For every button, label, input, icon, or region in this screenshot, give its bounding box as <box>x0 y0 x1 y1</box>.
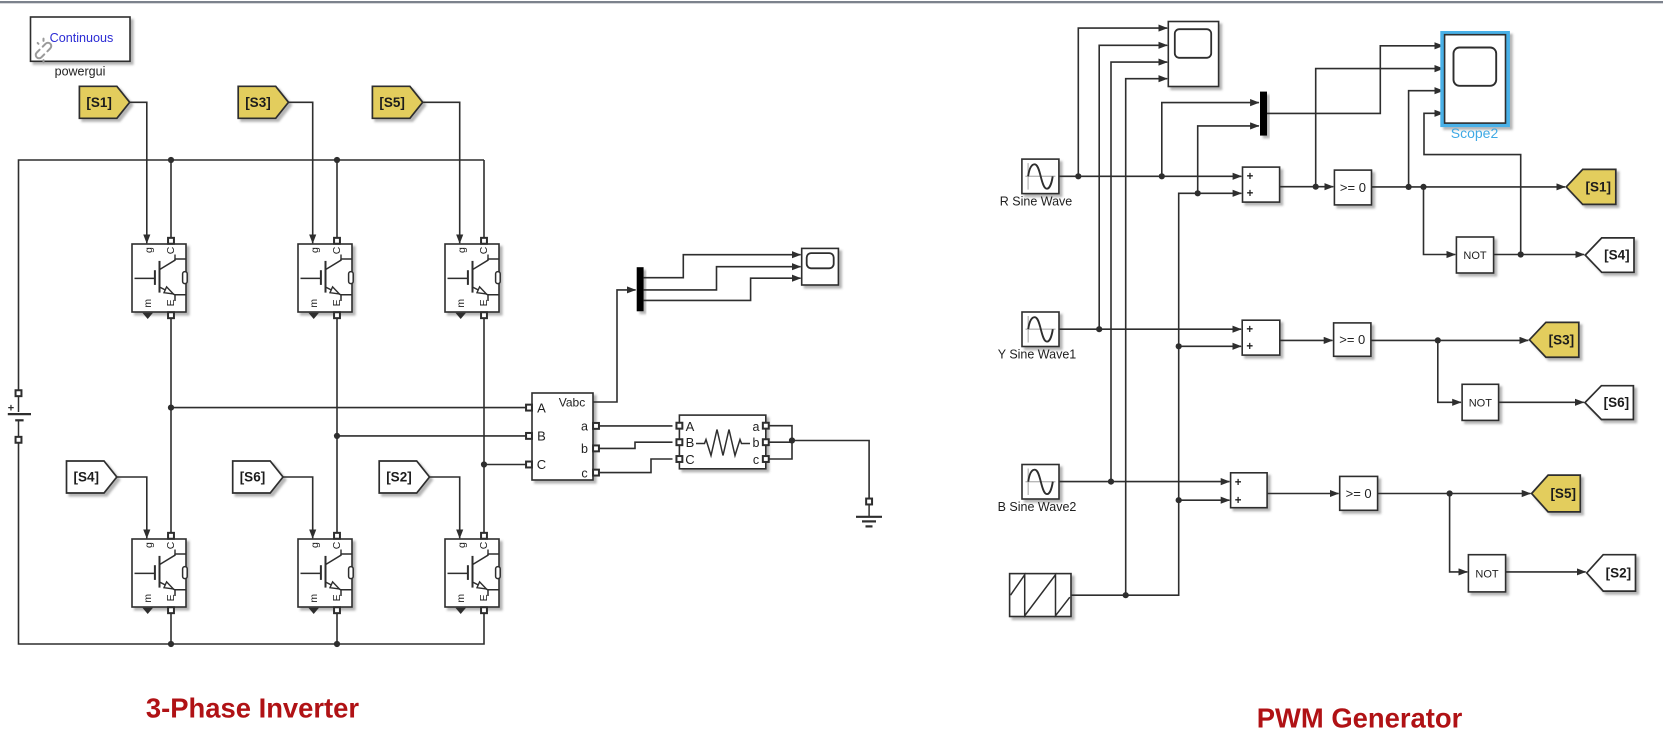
wire triangle carrier output <box>1071 193 1241 595</box>
svg-text:C: C <box>165 246 177 254</box>
wire IGBT2 collector drop <box>336 160 338 238</box>
wire Y sine tap up to pwm scope in2 <box>1099 45 1167 329</box>
From tag [S3] <box>238 86 288 118</box>
svg-text:>= 0: >= 0 <box>1340 180 1366 195</box>
svg-text:+: + <box>8 403 14 415</box>
svg-text:c: c <box>753 453 759 467</box>
mux <box>1260 92 1267 136</box>
sine wave source (B Sine Wave2) <box>1022 465 1059 500</box>
wire [S5] to gate of IGBT3 <box>423 102 460 243</box>
relational operator block (&gt;= 0, Y phase) <box>1334 323 1371 356</box>
NOT logical operator block (S4) <box>1456 237 1493 273</box>
Goto tag [S3] <box>1529 322 1578 357</box>
svg-text:C: C <box>478 541 490 549</box>
svg-text:NOT: NOT <box>1463 250 1487 262</box>
demux <box>637 267 644 311</box>
DC voltage source V1 <box>8 390 31 443</box>
svg-text:[S2]: [S2] <box>1606 565 1632 580</box>
wire demux out1 to scope in1 <box>644 255 801 278</box>
svg-text:m: m <box>455 594 467 603</box>
wire phase A to measurement port A <box>171 407 526 409</box>
svg-text:+: + <box>1235 495 1242 507</box>
svg-text:[S6]: [S6] <box>240 470 266 485</box>
svg-text:[S1]: [S1] <box>86 95 112 110</box>
sine wave source (R Sine Wave) <box>1022 159 1059 194</box>
sum block (Y phase) <box>1242 320 1280 355</box>
svg-text:g: g <box>456 542 468 548</box>
svg-text:Scope2: Scope2 <box>1451 125 1499 141</box>
wire B sine tap up to pwm scope in3 <box>1111 62 1167 482</box>
wire phase C vertical (IGBT3 E to IGBT6 C) <box>483 318 485 533</box>
wire IGBT4 emitter to DC- bus <box>170 613 172 644</box>
svg-text:C: C <box>685 452 694 467</box>
IGBT/Diode block Q5 (top, phase C) <box>445 238 500 319</box>
IGBT/Diode block Q2 (bottom, phase C) <box>445 533 500 614</box>
Goto tag [S4] <box>1585 238 1634 272</box>
svg-text:[S6]: [S6] <box>1604 395 1630 410</box>
svg-text:g: g <box>309 247 321 253</box>
wire DC+ bus drop to IGBT3 collector <box>483 160 485 238</box>
node relational1 tap to Scope2 <box>1406 184 1412 190</box>
wire measurement b to load B <box>600 442 673 448</box>
wire [S4] to gate of IGBT4 <box>117 477 147 538</box>
svg-text:>= 0: >= 0 <box>1346 486 1372 501</box>
svg-text:m: m <box>142 299 154 308</box>
three-phase series RLC load block <box>676 415 768 469</box>
Goto tag [S5] <box>1532 475 1581 512</box>
repeating sequence (triangle carrier) block <box>1010 574 1071 617</box>
wire phase A vertical (IGBT1 E to IGBT4 C) <box>170 318 172 533</box>
svg-text:NOT: NOT <box>1469 397 1493 409</box>
svg-text:R Sine Wave: R Sine Wave <box>1000 194 1073 208</box>
wire relational2 tap to NOT2 input <box>1438 340 1461 402</box>
node phase C junction <box>481 461 487 467</box>
svg-text:C: C <box>537 457 546 472</box>
node Y sine tap <box>1096 326 1102 332</box>
node phase B junction <box>334 433 340 439</box>
svg-text:[S3]: [S3] <box>1549 332 1575 347</box>
IGBT/Diode block Q6 (bottom, phase B) <box>298 533 353 614</box>
svg-text:g: g <box>143 247 155 253</box>
wire sum2 to relational2 <box>1280 339 1333 341</box>
wire measurement a to load A <box>600 425 673 427</box>
svg-text:Y Sine Wave1: Y Sine Wave1 <box>998 347 1077 361</box>
From tag [S5] <box>372 86 422 118</box>
relational operator block (&gt;= 0, R phase) <box>1334 170 1371 205</box>
wire NOT3 to Goto [S2] <box>1506 571 1586 573</box>
junction on DC+ bus at IGBT2 collector <box>334 157 340 163</box>
svg-text:[S1]: [S1] <box>1585 179 1611 194</box>
svg-text:[S4]: [S4] <box>1604 248 1630 263</box>
node phase A junction <box>168 405 174 411</box>
wire relational1 tap to NOT1 input <box>1424 187 1456 255</box>
three-phase V-I measurement block <box>526 393 599 480</box>
svg-text:m: m <box>455 299 467 308</box>
wire R sine tap to mux in1 <box>1162 103 1259 177</box>
wire relational2 to Goto [S3] <box>1371 339 1528 341</box>
node R sine tap to scope <box>1075 173 1081 179</box>
node relational2 tap to NOT2 <box>1435 337 1441 343</box>
wire measurement c to load C <box>600 459 673 473</box>
svg-text:+: + <box>1235 477 1242 489</box>
node B sine tap <box>1108 479 1114 485</box>
From tag [S1] <box>79 86 129 118</box>
svg-text:+: + <box>1246 341 1253 353</box>
junction on DC- bus at IGBT5 emitter <box>334 641 340 647</box>
wire sum1 to relational1 <box>1280 186 1334 188</box>
From tag [S4] <box>67 461 117 493</box>
wire DC- bus (bottom) <box>19 443 485 644</box>
svg-text:+: + <box>1246 324 1253 336</box>
wire relational3 to Goto [S5] <box>1378 493 1531 495</box>
node relational1 tap to NOT1 <box>1420 184 1426 190</box>
wire relational3 tap to NOT3 input <box>1450 494 1468 572</box>
svg-text:>= 0: >= 0 <box>1339 332 1365 347</box>
wire load b to neutral node <box>769 441 792 443</box>
Goto tag [S2] <box>1587 555 1636 591</box>
wire Vabc to demux <box>593 290 636 402</box>
wire relational1 to Goto [S1] <box>1372 186 1566 188</box>
svg-text:NOT: NOT <box>1475 568 1499 580</box>
scope block (pwm signals) <box>1168 22 1218 87</box>
wire [S2] to gate of IGBT6 <box>430 477 460 538</box>
wire load c to neutral node <box>769 440 792 459</box>
svg-text:A: A <box>686 419 695 434</box>
wire [S1] to gate of IGBT1 <box>130 102 147 243</box>
node triangle bus to sum2 <box>1176 343 1182 349</box>
wire demux out3 to scope in3 <box>644 278 801 300</box>
wire B Sine Wave2 to sum3 in1 <box>1059 481 1230 483</box>
wire sum1 tap up to Scope2 in2 <box>1316 69 1444 187</box>
svg-text:[S5]: [S5] <box>379 95 405 110</box>
svg-text:C: C <box>331 246 343 254</box>
wire NOT1 to Goto [S4] <box>1494 254 1585 256</box>
svg-text:[S4]: [S4] <box>73 470 99 485</box>
wire R sine tap up to pwm scope in1 <box>1078 28 1167 176</box>
wire [S3] to gate of IGBT2 <box>289 102 313 243</box>
svg-text:Continuous: Continuous <box>50 31 114 45</box>
relational operator block (&gt;= 0, B phase) <box>1340 476 1378 510</box>
wire IGBT5 emitter to DC- bus <box>336 613 338 644</box>
NOT logical operator block (S6) <box>1462 384 1499 420</box>
wire triangle tap up to pwm scope in4 <box>1126 79 1168 596</box>
svg-text:a: a <box>581 420 588 434</box>
node R sine tap to mux <box>1159 173 1165 179</box>
wire relational1 tap up to Scope2 in3 <box>1409 91 1444 187</box>
svg-text:[S5]: [S5] <box>1550 486 1576 501</box>
svg-text:b: b <box>753 436 760 450</box>
svg-text:+: + <box>1247 188 1254 200</box>
wire load a to neutral node <box>769 426 792 440</box>
wire DC+ bus (top) <box>19 160 485 390</box>
svg-text:g: g <box>143 542 155 548</box>
ground <box>856 499 882 527</box>
junction on DC- bus at IGBT4 emitter <box>168 641 174 647</box>
wire phase B vertical (IGBT2 E to IGBT5 C) <box>336 318 338 533</box>
node triangle bus to sum3 <box>1176 497 1182 503</box>
svg-text:C: C <box>331 541 343 549</box>
scope block Scope2 (selected) <box>1442 33 1507 125</box>
Goto tag [S6] <box>1585 386 1634 420</box>
junction on DC+ bus at IGBT1 collector <box>168 157 174 163</box>
svg-text:m: m <box>308 299 320 308</box>
node triangle tap to mux <box>1195 190 1201 196</box>
svg-text:g: g <box>309 542 321 548</box>
sum block (B phase) <box>1231 473 1268 508</box>
svg-text:C: C <box>478 246 490 254</box>
wire Y Sine Wave1 to sum2 in1 <box>1059 328 1241 330</box>
NOT logical operator block (S2) <box>1468 555 1505 592</box>
svg-text:3-Phase Inverter: 3-Phase Inverter <box>146 693 359 724</box>
svg-text:B: B <box>537 429 546 444</box>
sine wave source (Y Sine Wave1) <box>1022 312 1059 347</box>
svg-text:PWM Generator: PWM Generator <box>1257 703 1463 733</box>
node sum1 output tap to Scope2 <box>1313 184 1319 190</box>
svg-text:powergui: powergui <box>55 65 106 79</box>
wire [S6] to gate of IGBT5 <box>283 477 312 538</box>
wire IGBT1 collector drop <box>170 160 172 238</box>
wire NOT1 tap to Scope2 in4 <box>1424 113 1521 254</box>
svg-text:b: b <box>581 442 588 456</box>
svg-text:[S2]: [S2] <box>386 470 412 485</box>
svg-text:c: c <box>581 466 587 480</box>
sum block (R phase) <box>1243 167 1280 202</box>
node NOT1 output tap to Scope2 <box>1518 251 1524 257</box>
wire NOT2 to Goto [S6] <box>1499 401 1584 403</box>
wire triangle bus to sum2 in2 <box>1179 345 1241 347</box>
node neutral junction <box>789 437 795 443</box>
IGBT/Diode block Q4 (bottom, phase A) <box>132 533 187 614</box>
Goto tag [S1] <box>1566 169 1616 204</box>
node triangle tap to pwm scope <box>1123 592 1129 598</box>
IGBT/Diode block Q3 (top, phase B) <box>298 238 353 319</box>
svg-text:C: C <box>165 541 177 549</box>
node relational3 tap to NOT3 <box>1447 490 1453 496</box>
svg-text:A: A <box>537 400 546 415</box>
wire neutral to ground <box>792 441 869 499</box>
scope block (inverter output) <box>802 248 839 285</box>
IGBT/Diode block Q1 (top, phase A) <box>132 238 187 319</box>
wire phase B to measurement port B <box>337 435 526 437</box>
wire phase C to measurement port C <box>484 464 526 466</box>
svg-text:B: B <box>686 435 695 450</box>
svg-text:[S3]: [S3] <box>245 95 271 110</box>
svg-text:m: m <box>308 594 320 603</box>
From tag [S6] <box>233 461 283 493</box>
wire mux output to Scope2 in1 <box>1267 46 1443 114</box>
svg-text:m: m <box>142 594 154 603</box>
wire demux out2 to scope in2 <box>644 267 801 290</box>
svg-text:a: a <box>753 420 760 434</box>
wire sum3 to relational3 <box>1267 493 1339 495</box>
svg-text:g: g <box>456 247 468 253</box>
powergui block <box>30 17 130 63</box>
From tag [S2] <box>379 461 429 493</box>
wire R Sine Wave to sum1 in1 <box>1059 175 1242 177</box>
wire triangle tap to mux in2 <box>1198 126 1259 193</box>
svg-text:Vabc: Vabc <box>559 396 585 410</box>
svg-text:B Sine Wave2: B Sine Wave2 <box>998 500 1077 514</box>
svg-text:+: + <box>1247 171 1254 183</box>
wire triangle bus to sum3 in2 <box>1179 499 1230 501</box>
